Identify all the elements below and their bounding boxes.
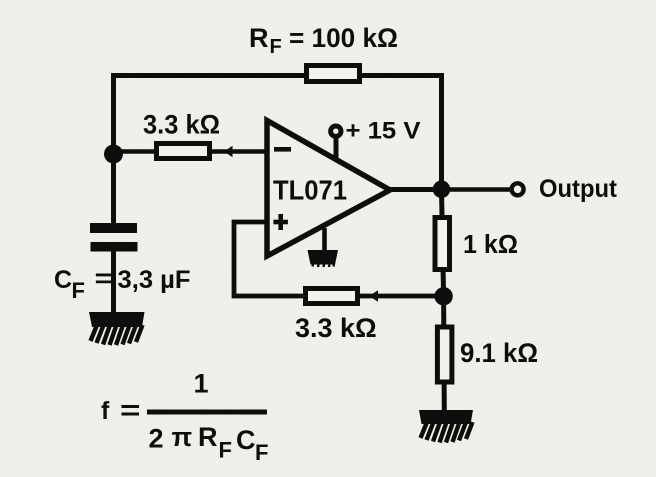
ground (bottom right): [419, 410, 473, 443]
op-amp part number TL071: [273, 175, 347, 206]
svg-text:C: C: [54, 266, 72, 294]
resistor R2 3.3k (feedback): [306, 289, 358, 304]
svg-text:R: R: [249, 23, 269, 53]
wire node B down through 1k to node C: [442, 190, 444, 296]
svg-text:3,3 µF: 3,3 µF: [118, 266, 191, 294]
wire inverting input: [114, 149, 267, 154]
svg-text:TL071: TL071: [273, 175, 347, 206]
resistor RF: [307, 66, 360, 82]
arrow into inverting resistor: [224, 146, 233, 157]
node A (left junction): [104, 145, 123, 164]
+15V terminal circle: [331, 126, 341, 136]
svg-text:F: F: [270, 36, 282, 58]
capacitor CF plates: [90, 223, 138, 252]
op-amp inverting input minus sign: [274, 147, 291, 152]
svg-text:C: C: [236, 425, 256, 455]
wire op-amp output to node B: [390, 187, 442, 192]
wire node C through 9.1k to ground: [441, 296, 447, 412]
svg-text:9.1 kΩ: 9.1 kΩ: [460, 338, 538, 368]
node B (output junction): [433, 181, 451, 199]
svg-text:π: π: [172, 422, 193, 452]
svg-text:1 kΩ: 1 kΩ: [463, 231, 518, 259]
node C (feedback junction): [434, 287, 452, 305]
svg-text:1: 1: [194, 369, 209, 399]
svg-text:3.3 kΩ: 3.3 kΩ: [295, 313, 377, 343]
svg-text:F: F: [72, 278, 85, 303]
ground (capacitor): [89, 312, 145, 345]
wire to output terminal: [442, 187, 512, 192]
svg-text:+ 15 V: + 15 V: [346, 118, 421, 145]
wire capacitor to ground: [111, 250, 116, 314]
op-amp non-inverting input plus sign: [273, 214, 288, 230]
label 1 kOhm: [463, 231, 518, 259]
svg-text:F: F: [219, 438, 232, 463]
formula f = 1 / (2 pi RF CF): [101, 369, 268, 466]
svg-text:= 100 kΩ: = 100 kΩ: [289, 23, 398, 53]
svg-text:Output: Output: [539, 175, 618, 203]
svg-text:f: f: [101, 397, 110, 425]
svg-text:=: =: [95, 263, 114, 293]
svg-text:F: F: [255, 440, 268, 465]
+15V supply wire: [334, 137, 339, 160]
label 9.1 kOhm: [460, 338, 538, 368]
label RF = 100 kOhm: [249, 23, 398, 58]
label 3.3 kOhm (input resistor): [143, 110, 220, 140]
resistor R1 3.3k (input): [157, 144, 210, 159]
output terminal circle: [512, 183, 524, 195]
wire top feedback run (left riser, top run, right riser): [114, 76, 442, 191]
svg-text:3.3 kΩ: 3.3 kΩ: [143, 110, 220, 140]
svg-text:2: 2: [149, 424, 164, 454]
label 3.3 kOhm (feedback resistor): [295, 313, 377, 343]
label CF = 3,3 uF: [54, 263, 191, 303]
label + 15 V: [346, 118, 421, 145]
svg-text:R: R: [198, 422, 218, 452]
arrow into feedback resistor: [369, 290, 378, 301]
resistor 9.1k: [437, 327, 452, 382]
resistor 1k: [435, 218, 450, 270]
ground (op-amp negative supply): [308, 228, 339, 267]
svg-text:=: =: [120, 395, 141, 426]
label Output: [539, 175, 618, 203]
wire non-inverting feedback path: [234, 222, 444, 296]
wire left vertical to capacitor: [111, 154, 116, 224]
op-amp U1 TL071 triangle: [267, 121, 390, 257]
